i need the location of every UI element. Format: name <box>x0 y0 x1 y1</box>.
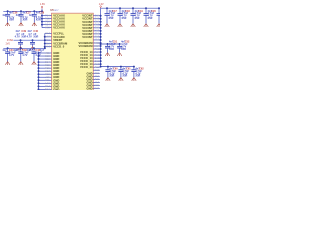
svg-text:J12: J12 <box>46 43 51 45</box>
svg-text:1.8V: 1.8V <box>40 3 45 6</box>
svg-text:G12: G12 <box>95 70 100 72</box>
net label 1V0 (lower-left bus) <box>5 42 10 45</box>
capacitor C36 <box>2 10 18 26</box>
capacitor C21 <box>157 7 170 27</box>
svg-text:K13: K13 <box>46 33 51 35</box>
svg-text:VCCINT: VCCINT <box>82 35 93 39</box>
svg-text:VCCPLL: VCCPLL <box>53 31 64 35</box>
svg-text:K11: K11 <box>45 80 50 82</box>
pin VCCINT H13 (right row 5) <box>82 29 101 33</box>
svg-text:F16: F16 <box>45 68 50 70</box>
pin GND G17 <box>38 69 60 73</box>
pin VCCINT G14 (right row 4) <box>82 26 101 30</box>
pin VCCO_14 C12 (right row 14) <box>80 56 102 60</box>
pin GND N14 <box>38 87 60 91</box>
svg-text:4.7V: 4.7V <box>22 54 28 57</box>
svg-text:T13: T13 <box>95 55 100 57</box>
svg-text:C14: C14 <box>95 16 100 18</box>
svg-text:X5R: X5R <box>122 75 127 78</box>
svg-text:E15: E15 <box>45 65 50 67</box>
svg-text:C12: C12 <box>95 58 100 60</box>
svg-text:G17: G17 <box>45 71 50 73</box>
svg-text:VCCAUX: VCCAUX <box>53 26 65 30</box>
pin VCCO_14 D11 (right row 15) <box>80 59 102 63</box>
pin NC G12 (right row 18) <box>93 70 100 72</box>
svg-text:VCCBRAM: VCCBRAM <box>79 44 94 48</box>
capacitor C43 <box>29 47 45 65</box>
svg-text:G14: G14 <box>95 28 100 30</box>
svg-text:M11: M11 <box>95 85 100 87</box>
capacitor C40 <box>27 30 39 50</box>
svg-text:X5R: X5R <box>33 35 38 38</box>
svg-text:D13: D13 <box>95 19 100 21</box>
svg-text:H13: H13 <box>45 46 50 48</box>
pin GND H11 (right row 19) <box>86 71 99 75</box>
pin GND F16 <box>38 66 60 70</box>
svg-text:N12: N12 <box>95 88 100 90</box>
pin GND E15 <box>38 63 60 67</box>
capacitor C60 <box>105 66 118 81</box>
svg-text:B12: B12 <box>45 56 50 58</box>
pin VCCBRAM N14 (right row 10) <box>79 44 102 48</box>
capacitor C20 <box>144 7 157 27</box>
svg-text:E14: E14 <box>95 22 100 24</box>
svg-text:F13: F13 <box>95 25 100 27</box>
pin GND A11 <box>38 51 60 55</box>
svg-text:J14: J14 <box>95 34 100 36</box>
svg-text:4.7V: 4.7V <box>15 35 21 38</box>
wire bottom-right branch <box>100 66 134 68</box>
svg-text:X5R: X5R <box>36 19 41 22</box>
svg-text:4n7: 4n7 <box>2 14 7 17</box>
svg-text:1.0V: 1.0V <box>99 3 104 6</box>
capacitor C18 <box>118 7 131 27</box>
pin VCCINT C14 (right row 0) <box>82 14 101 18</box>
svg-text:F11: F11 <box>95 67 100 69</box>
wire group-B vertical <box>44 33 46 48</box>
svg-text:M13: M13 <box>95 43 100 45</box>
pin GND K11 (right row 21) <box>86 77 99 81</box>
pin VCCINT D13 (right row 1) <box>82 17 101 21</box>
svg-text:4.7V: 4.7V <box>35 54 41 57</box>
pin GND M11 (right row 23) <box>86 83 99 87</box>
capacitor C51 <box>105 41 118 56</box>
wire left GND bus <box>38 53 40 90</box>
pin NC L14 (right row 8) <box>93 39 101 42</box>
capacitor C41 <box>2 47 18 65</box>
wire 1V8A net <box>14 39 52 49</box>
wire right vertical bus <box>100 8 102 66</box>
capacitor C42 <box>16 47 32 65</box>
svg-text:H11: H11 <box>95 73 100 75</box>
pin VCCO_14 R14 (right row 12) <box>80 50 102 54</box>
pin VCCPLL K13 <box>45 31 65 35</box>
pin VCCAUX N14 <box>41 23 65 27</box>
svg-text:J19: J19 <box>45 77 50 79</box>
svg-text:4.7V: 4.7V <box>9 54 15 57</box>
pin VCCBRAM J12 <box>44 42 68 46</box>
power flag 1V8 (top-left) <box>40 3 45 9</box>
pin VCCO_14 F11 (right row 17) <box>80 65 100 69</box>
svg-text:L12: L12 <box>45 83 50 85</box>
svg-text:1V0: 1V0 <box>5 42 10 45</box>
pin GND C13 <box>38 57 60 61</box>
svg-text:4n7: 4n7 <box>2 49 7 52</box>
pin GND J12 (right row 20) <box>86 74 99 78</box>
svg-text:E12: E12 <box>95 64 100 66</box>
svg-text:4n7: 4n7 <box>29 49 34 52</box>
pin GND L12 <box>38 81 60 85</box>
svg-text:X5R: X5R <box>135 17 140 20</box>
svg-text:D11: D11 <box>95 61 100 63</box>
reference U5 <box>50 8 54 12</box>
svg-text:D14: D14 <box>45 62 50 64</box>
svg-text:P13: P13 <box>45 21 50 23</box>
pin VCCBRAM M13 (right row 9) <box>79 41 102 45</box>
net label 1V8A <box>7 38 14 42</box>
svg-text:VCCO_0: VCCO_0 <box>53 45 65 49</box>
svg-text:M13: M13 <box>45 86 50 88</box>
pin GND D14 <box>38 60 60 64</box>
svg-text:J12: J12 <box>95 76 100 78</box>
capacitor C19 <box>131 7 144 27</box>
svg-text:K13: K13 <box>95 37 100 39</box>
svg-text:4.7V: 4.7V <box>27 35 33 38</box>
svg-text:VCCO_14: VCCO_14 <box>80 65 93 69</box>
pin GND K11 <box>38 78 60 82</box>
pin GND B12 <box>38 54 60 58</box>
svg-text:X5R: X5R <box>109 17 114 20</box>
svg-text:4n7: 4n7 <box>16 14 21 17</box>
svg-text:L12: L12 <box>95 82 100 84</box>
svg-text:4n7: 4n7 <box>29 14 34 17</box>
IC U5 body <box>52 13 94 92</box>
wire top-left bus <box>3 10 43 12</box>
pin VCCINT J14 (right row 6) <box>82 32 101 36</box>
svg-text:N14: N14 <box>45 89 50 90</box>
pin VCCO_14 T13 (right row 13) <box>80 53 102 57</box>
svg-text:X5R: X5R <box>135 75 140 78</box>
svg-text:4n7: 4n7 <box>16 49 21 52</box>
pin GND H18 <box>38 72 60 76</box>
capacitor C52 <box>117 41 130 56</box>
svg-text:H13: H13 <box>95 31 100 33</box>
capacitor C38 <box>29 10 45 26</box>
wire mid-right branch <box>100 43 120 45</box>
capacitor C37 <box>16 10 32 26</box>
svg-text:X5R: X5R <box>109 48 114 51</box>
svg-text:X5R: X5R <box>148 17 153 20</box>
power flag 1V0 (top-right) <box>99 3 104 8</box>
capacitor C61 <box>118 66 131 81</box>
pin NC P13 (right row 11) <box>93 48 101 51</box>
svg-text:P13: P13 <box>95 49 100 51</box>
wire top-right bus <box>101 7 160 9</box>
pin VCCAUX R15 <box>41 17 65 21</box>
capacitor C17 <box>105 7 118 27</box>
svg-text:X5R: X5R <box>9 19 14 22</box>
wire lower-left bus <box>3 47 45 49</box>
svg-text:N14: N14 <box>95 46 100 48</box>
svg-text:M15: M15 <box>45 27 50 29</box>
pin GND N12 (right row 24) <box>86 86 99 90</box>
pin VCCAUX P13 <box>41 20 65 24</box>
svg-text:N14: N14 <box>45 24 50 26</box>
svg-text:GND: GND <box>53 87 59 90</box>
pin VREFP K11 <box>45 38 63 42</box>
svg-text:K11: K11 <box>95 79 100 81</box>
wire 1V8 vertical bus <box>41 9 43 28</box>
svg-text:H18: H18 <box>45 74 50 76</box>
svg-text:VCCADC: VCCADC <box>53 35 65 39</box>
capacitor C39 <box>15 30 27 50</box>
pin GND J19 <box>38 75 60 79</box>
svg-text:R14: R14 <box>95 52 100 54</box>
svg-text:X5R: X5R <box>109 75 114 78</box>
pin VCCADC L12 <box>44 35 65 39</box>
pin VCCINT E14 (right row 2) <box>82 20 101 24</box>
svg-text:X5R: X5R <box>23 19 28 22</box>
svg-text:L12: L12 <box>46 37 51 39</box>
capacitor C62 <box>131 66 144 81</box>
pin VCCO_0 H13 <box>44 45 65 49</box>
svg-text:A11: A11 <box>45 52 50 55</box>
value XC7A <box>54 10 59 12</box>
svg-text:T14: T14 <box>45 15 50 17</box>
svg-text:L14: L14 <box>95 40 100 42</box>
pin VCCINT K13 (right row 7) <box>82 35 101 39</box>
pin GND L12 (right row 22) <box>86 80 99 84</box>
pin VCCO_14 E12 (right row 16) <box>80 62 102 66</box>
pin VCCINT F13 (right row 3) <box>82 23 101 27</box>
svg-text:R15: R15 <box>45 18 50 20</box>
svg-text:X5R: X5R <box>122 17 127 20</box>
svg-text:C13: C13 <box>45 59 50 61</box>
pin VCCAUX M15 <box>42 26 65 30</box>
svg-text:C38: C38 <box>40 12 45 15</box>
svg-text:GND: GND <box>86 86 92 90</box>
pin GND M13 <box>38 84 60 88</box>
svg-text:X5R: X5R <box>121 48 126 51</box>
pin VCCAUX T14 <box>41 14 65 18</box>
